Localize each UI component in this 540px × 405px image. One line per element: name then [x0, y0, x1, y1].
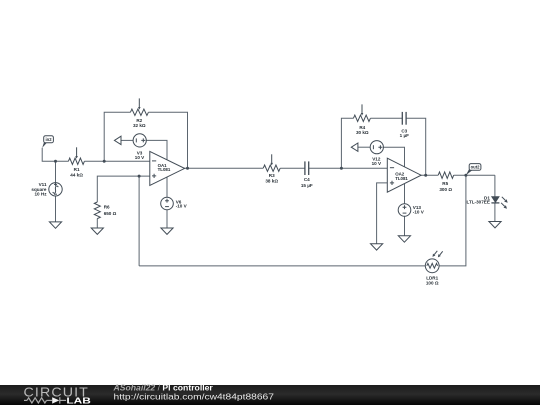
- svg-text:ASohail22 / PI controller: ASohail22 / PI controller: [112, 383, 213, 393]
- svg-text:http://circuitlab.com/cw4t84pt: http://circuitlab.com/cw4t84pt88667: [114, 393, 274, 402]
- svg-text:LAB: LAB: [66, 395, 91, 405]
